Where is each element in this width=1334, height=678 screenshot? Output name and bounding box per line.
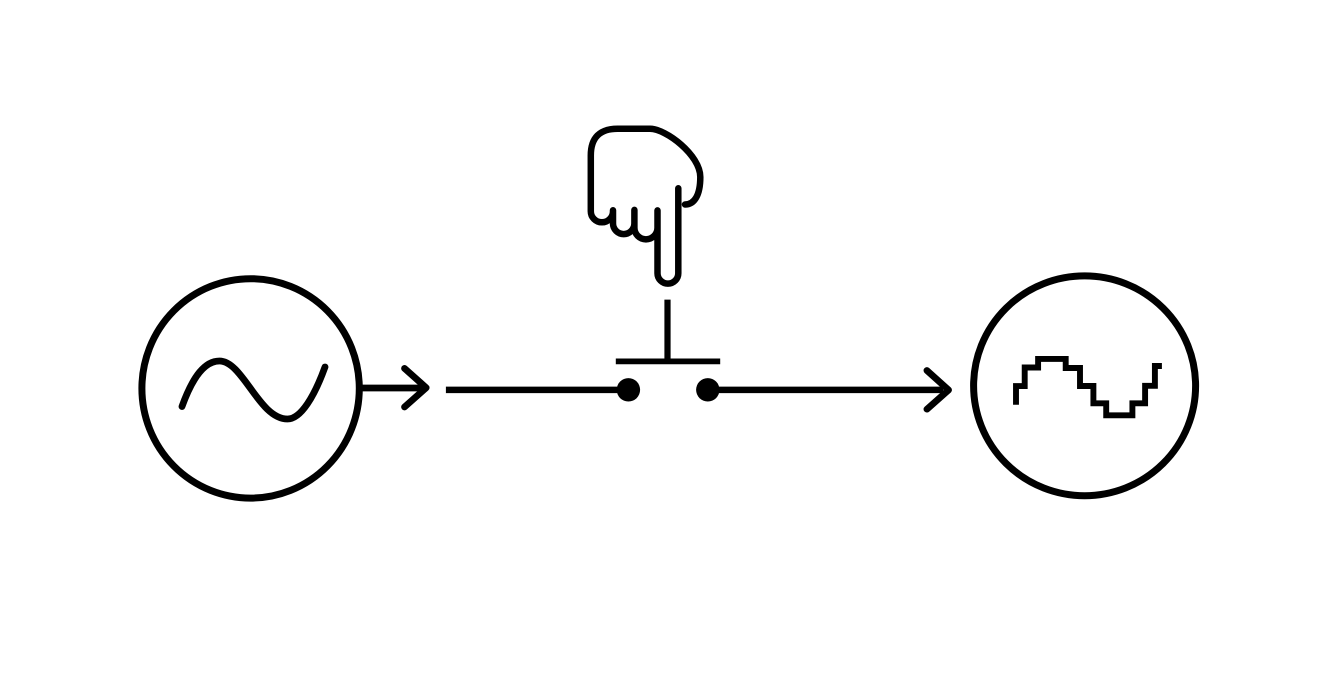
- switch actuator stem: [664, 300, 670, 362]
- signal source circle (analog): [142, 279, 359, 498]
- switch contact dot left: [617, 378, 640, 401]
- sine wave inside source circle: [182, 361, 325, 419]
- switch actuator bar: [616, 358, 720, 364]
- wire into switch: [446, 387, 628, 394]
- pressing hand (pointing finger) icon: [591, 129, 701, 284]
- staircase (sampled) wave inside right circle: [1016, 359, 1162, 415]
- arrow 1 shaft: [360, 385, 425, 392]
- arrow 1 head: [405, 368, 427, 407]
- sampled signal circle: [974, 276, 1196, 496]
- switch contact dot right: [696, 378, 719, 401]
- arrow 2 head: [927, 371, 949, 410]
- wire out of switch: [708, 387, 943, 394]
